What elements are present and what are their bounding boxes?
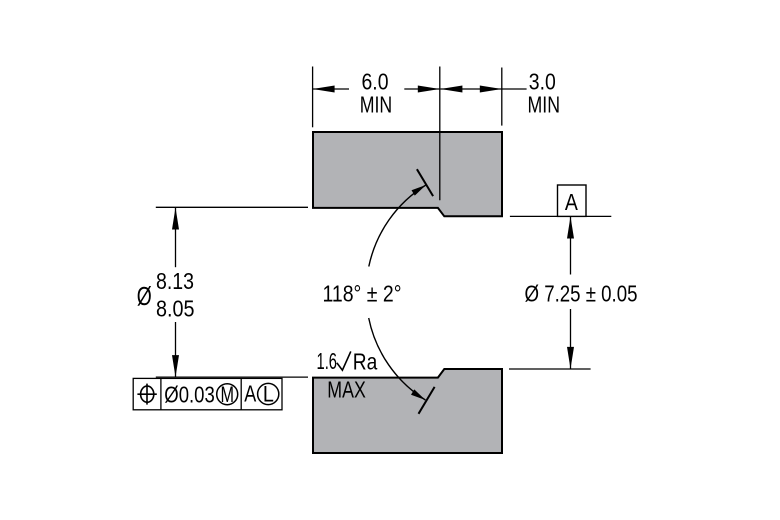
extension line middle (step) <box>439 67 441 201</box>
angle leader arc lower <box>369 318 426 400</box>
arrow 3.0 right <box>480 86 502 93</box>
svg-text:8.13: 8.13 <box>156 268 194 294</box>
svg-text:L: L <box>263 381 274 406</box>
modifier M circle <box>217 384 238 405</box>
left dim vertical lower segment <box>175 322 177 377</box>
drill flank tick bottom <box>419 387 435 414</box>
position symbol cross vertical <box>146 384 148 405</box>
svg-text:A: A <box>244 381 256 407</box>
surface finish check mark <box>337 351 351 370</box>
arrow 6.0 right <box>418 86 440 93</box>
svg-text:Ø: Ø <box>137 281 152 311</box>
svg-text:Ø 7.25 ± 0.05: Ø 7.25 ± 0.05 <box>525 280 638 306</box>
svg-text:8.05: 8.05 <box>156 296 195 322</box>
position symbol circle <box>141 386 154 402</box>
svg-text:MAX: MAX <box>327 377 366 403</box>
right dim vertical lower segment <box>570 309 572 369</box>
dimension tail 3.0 <box>502 88 527 90</box>
svg-text:1.6: 1.6 <box>317 348 338 374</box>
position symbol cross horizontal <box>137 393 156 395</box>
datum feature box A <box>558 185 587 216</box>
feature control frame divider 2 <box>240 378 242 409</box>
right dim bottom witness line <box>509 368 591 370</box>
left dim top witness line <box>156 206 308 208</box>
dimension line 3.0 <box>440 88 501 90</box>
extension line left (top dim) <box>312 67 314 128</box>
part cross-section lower half <box>313 369 502 453</box>
arrow right dim down <box>567 347 574 369</box>
arrow arc top <box>412 185 426 196</box>
dimension line 6.0 left segment <box>313 88 349 90</box>
arrow left dim down <box>172 355 179 377</box>
arrow arc bottom <box>411 389 425 400</box>
extension line right (top dim) <box>501 68 503 126</box>
arrow right dim up <box>567 217 574 239</box>
arrow 6.0 left <box>313 86 335 93</box>
arrow 3.0 left <box>440 86 462 93</box>
left dim vertical upper segment <box>175 208 177 268</box>
modifier L circle <box>258 383 279 404</box>
svg-text:118° ± 2°: 118° ± 2° <box>323 280 402 306</box>
svg-text:M: M <box>220 382 234 407</box>
feature control frame outline <box>133 378 282 409</box>
svg-text:A: A <box>565 189 578 215</box>
svg-text:Ø0.03: Ø0.03 <box>164 382 215 408</box>
right dim vertical upper segment <box>570 217 572 275</box>
drill flank tick top <box>417 169 433 196</box>
arrow left dim up <box>172 208 179 230</box>
part cross-section upper half <box>313 132 502 216</box>
dimension line 6.0 right segment <box>404 88 440 90</box>
angle leader arc upper <box>369 185 426 267</box>
feature control frame divider 1 <box>160 378 162 409</box>
svg-text:MIN: MIN <box>360 92 393 118</box>
svg-text:MIN: MIN <box>528 92 561 118</box>
svg-text:Ra: Ra <box>353 348 378 374</box>
right dim top witness line <box>510 215 611 217</box>
left dim bottom witness line <box>156 376 308 378</box>
